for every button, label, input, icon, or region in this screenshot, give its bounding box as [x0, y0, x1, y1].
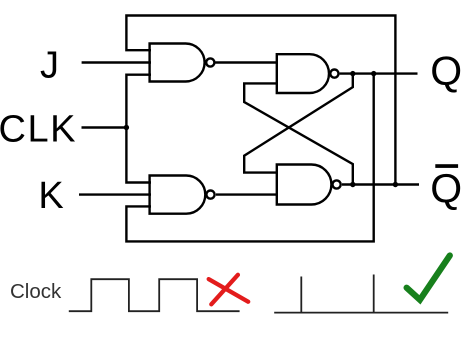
svg-text:Clock: Clock [10, 280, 62, 303]
node CLK junction [124, 125, 129, 130]
wire U2 output to U4 input [216, 193, 278, 195]
svg-text:CLK: CLK [0, 109, 77, 151]
node Qbar feedback junction [393, 182, 398, 187]
node Q feedback junction [371, 71, 376, 76]
nand gate U2 inversion bubble [206, 191, 214, 199]
nand gate U3 body [277, 54, 329, 93]
wire cross-couple Qbar node to U3 input [244, 83, 353, 184]
svg-text:K: K [38, 175, 63, 217]
svg-text:Q: Q [430, 165, 462, 211]
symbol green check (correct) [407, 256, 450, 300]
nand gate U4 inversion bubble [333, 180, 341, 188]
nand gate U4 body [277, 165, 332, 205]
wire cross-couple Q node to U4 input [244, 74, 353, 173]
wire K input [79, 193, 151, 195]
wire Q output [340, 72, 418, 74]
wire J input [82, 61, 151, 63]
nand gate U1 body [150, 44, 205, 82]
waveform clock edge pulses (correct, edge-triggered) baseline [274, 312, 448, 314]
nand gate U1 inversion bubble [206, 58, 214, 66]
wire feedback Q to gate U2 (bottom loop) [126, 74, 373, 242]
wire CLK vertical bus [126, 75, 151, 183]
wire Qbar output [342, 183, 419, 185]
node Q junction at U3 output [350, 71, 355, 76]
waveform edge pulse 2 [373, 275, 375, 313]
nand gate U2 body [150, 176, 206, 214]
wire feedback Qbar to gate U1 (top loop) [126, 16, 395, 185]
wire U1 output to U3 input [215, 61, 278, 63]
svg-text:J: J [40, 44, 59, 86]
waveform edge pulse 1 [300, 277, 302, 313]
node Qbar junction at U4 output [350, 182, 355, 187]
waveform clock square wave (incorrect, level-triggered) [69, 279, 240, 311]
nand gate U3 inversion bubble [330, 70, 338, 78]
svg-text:Q: Q [430, 48, 462, 94]
wire CLK input [82, 126, 128, 128]
symbol red X (wrong) [209, 275, 249, 305]
label Qbar overbar [435, 164, 458, 168]
